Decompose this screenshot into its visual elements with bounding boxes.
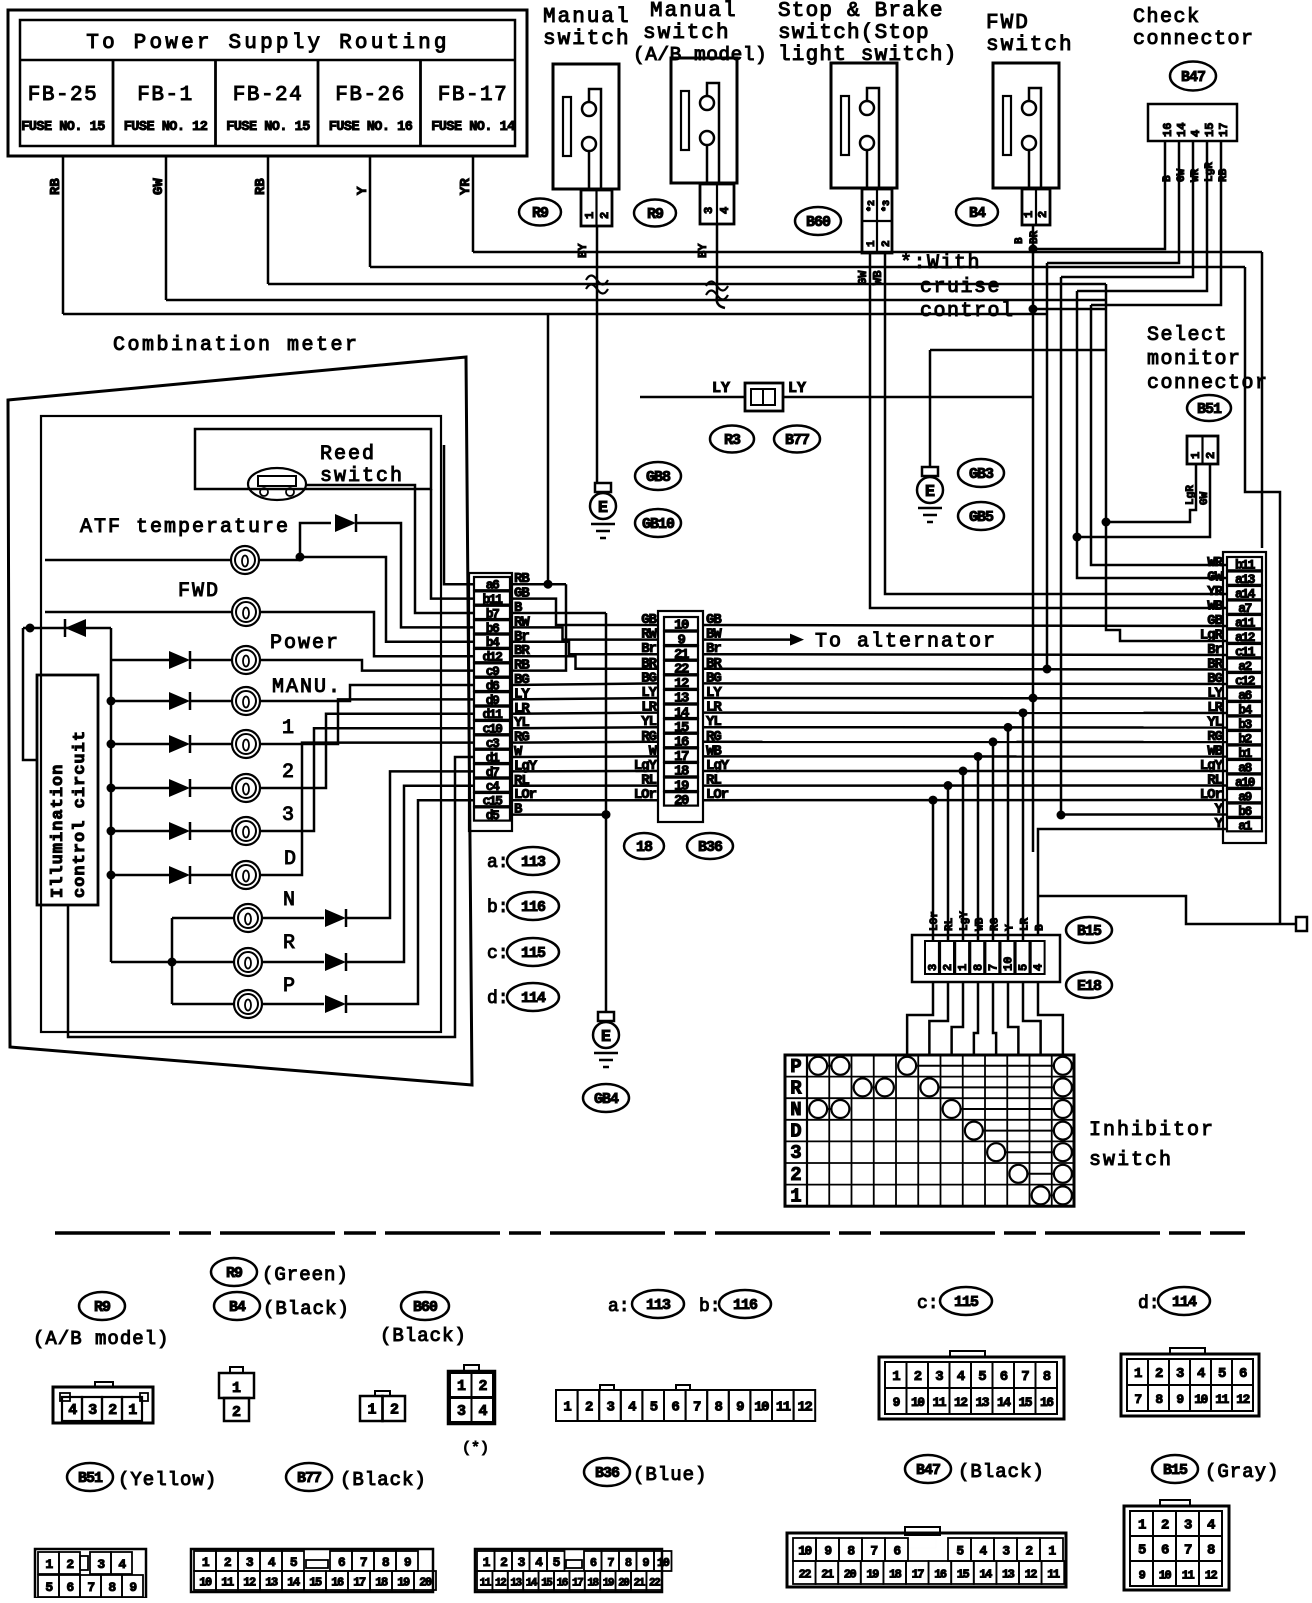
svg-text:(Gray): (Gray) [1205,1461,1279,1483]
svg-text:11: 11 [776,1400,791,1416]
svg-text:4: 4 [118,1557,126,1572]
svg-text:3: 3 [607,1400,615,1416]
svg-text:*2: *2 [866,200,878,212]
svg-text:N: N [790,1099,801,1121]
svg-text:7: 7 [986,964,1000,971]
svg-text:4: 4 [1189,130,1203,137]
svg-text:2: 2 [598,212,612,219]
svg-text:9: 9 [893,1395,901,1410]
svg-text:6: 6 [590,1556,597,1570]
svg-text:FWD: FWD [178,580,220,603]
svg-text:B60: B60 [413,1299,438,1316]
svg-text:9: 9 [824,1544,832,1559]
svg-text:D: D [284,848,298,871]
svg-text:9: 9 [1139,1569,1146,1583]
svg-text:19: 19 [866,1568,879,1582]
svg-text:B15: B15 [1077,923,1102,940]
svg-text:1: 1 [892,1369,900,1385]
svg-text:d:: d: [1138,1294,1160,1314]
svg-text:6: 6 [1161,1543,1169,1559]
svg-text:9: 9 [736,1400,744,1416]
svg-text:*3: *3 [881,200,893,212]
svg-text:16: 16 [557,1578,568,1590]
svg-text:5: 5 [956,1544,964,1559]
svg-text:R9: R9 [647,206,664,223]
svg-text:3: 3 [926,964,940,971]
svg-text:(Blue): (Blue) [633,1464,707,1486]
svg-text:21: 21 [634,1578,646,1590]
svg-text:Check: Check [1133,6,1201,29]
svg-text:light switch): light switch) [778,44,957,67]
svg-text:R: R [790,1077,802,1099]
svg-text:switch: switch [643,22,731,45]
svg-text:RL: RL [944,917,956,931]
svg-text:1: 1 [563,1400,571,1416]
svg-text:14: 14 [287,1576,300,1590]
svg-text:116: 116 [521,899,546,916]
svg-text:d:: d: [487,989,509,1009]
svg-text:E: E [601,1028,611,1047]
svg-text:Y: Y [355,186,371,195]
svg-text:2: 2 [232,1404,241,1421]
svg-text:3: 3 [88,1402,97,1419]
svg-text:Manual: Manual [650,0,738,23]
svg-text:B: B [1014,237,1026,244]
svg-text:7: 7 [1134,1392,1141,1407]
svg-text:1: 1 [232,1380,241,1397]
svg-text:FB-17: FB-17 [438,84,509,107]
svg-text:8: 8 [1207,1543,1215,1559]
svg-text:Manual: Manual [543,6,631,29]
svg-text:4: 4 [268,1555,276,1570]
svg-text:WB: WB [974,917,986,931]
svg-text:B51: B51 [1197,401,1222,418]
svg-text:13: 13 [975,1395,989,1410]
svg-text:6: 6 [671,1400,679,1416]
svg-text:11: 11 [480,1578,492,1590]
svg-text:1: 1 [1138,1518,1146,1534]
svg-text:Y: Y [1005,924,1017,931]
svg-text:B4: B4 [229,1299,246,1316]
svg-text:GB5: GB5 [969,509,994,526]
svg-text:10: 10 [754,1400,769,1416]
svg-text:Power: Power [270,632,340,655]
svg-text:7: 7 [870,1544,877,1559]
svg-text:13: 13 [1002,1568,1015,1582]
svg-text:B: B [1035,924,1047,931]
svg-text:6: 6 [338,1555,346,1570]
svg-text:14: 14 [997,1395,1011,1410]
svg-text:BR: BR [1029,230,1041,244]
svg-text:2: 2 [224,1555,232,1570]
svg-text:3: 3 [935,1369,943,1385]
svg-text:R9: R9 [226,1265,243,1282]
svg-text:Combination meter: Combination meter [113,334,360,357]
svg-text:1: 1 [866,240,878,247]
svg-text:3: 3 [282,804,296,827]
svg-text:switch: switch [986,34,1074,57]
svg-text:4: 4 [628,1400,636,1416]
svg-text:E: E [598,499,608,518]
svg-text:5: 5 [1138,1543,1146,1559]
svg-text:MANU.: MANU. [272,676,342,699]
svg-text:Select: Select [1147,324,1228,347]
svg-text:LY: LY [712,380,730,397]
svg-text:15: 15 [1018,1395,1032,1410]
svg-text:2: 2 [500,1555,508,1570]
svg-text:RG: RG [989,917,1001,931]
svg-text:15: 15 [309,1576,322,1590]
svg-text:B47: B47 [916,1462,940,1479]
svg-text:8: 8 [1043,1369,1051,1385]
svg-text:20: 20 [844,1568,857,1582]
svg-text:LOr: LOr [929,911,941,931]
svg-text:1: 1 [202,1555,210,1570]
svg-text:13: 13 [265,1576,278,1590]
svg-text:2: 2 [108,1402,117,1419]
svg-text:FB-24: FB-24 [233,84,304,107]
svg-text:116: 116 [733,1297,758,1314]
svg-text:Illumination: Illumination [49,764,68,898]
svg-text:1: 1 [1134,1366,1142,1382]
svg-text:FUSE NO. 12: FUSE NO. 12 [124,120,208,135]
svg-text:17: 17 [912,1568,925,1582]
svg-text:4: 4 [979,1544,987,1559]
svg-text:monitor: monitor [1147,348,1242,371]
svg-text:2: 2 [941,964,955,971]
svg-text:1: 1 [282,717,296,740]
svg-text:*:With: *:With [900,252,981,275]
svg-text:4: 4 [1032,964,1046,971]
svg-text:D: D [790,1121,801,1143]
svg-text:RB: RB [48,178,64,195]
svg-text:1: 1 [1189,452,1203,459]
svg-text:(Green): (Green) [262,1264,349,1286]
svg-text:1: 1 [483,1555,491,1570]
svg-text:3: 3 [1184,1518,1192,1534]
svg-text:16: 16 [1161,123,1175,137]
svg-text:11: 11 [1047,1568,1060,1582]
svg-text:4: 4 [1207,1518,1215,1534]
svg-text:YR: YR [458,178,474,195]
svg-text:To alternator: To alternator [815,631,997,654]
svg-text:113: 113 [646,1297,671,1314]
svg-text:RB: RB [253,178,269,195]
svg-text:15: 15 [957,1568,970,1582]
svg-text:5: 5 [45,1580,53,1595]
svg-text:8: 8 [108,1580,116,1595]
svg-text:113: 113 [521,854,546,871]
svg-text:B36: B36 [698,839,723,856]
svg-text:7: 7 [1184,1543,1192,1559]
svg-text:WB: WB [871,271,885,285]
svg-text:Stop & Brake: Stop & Brake [778,0,944,23]
svg-text:115: 115 [954,1294,979,1311]
svg-text:2: 2 [66,1557,74,1572]
svg-text:switch: switch [1089,1149,1173,1172]
svg-text:17: 17 [572,1578,583,1590]
svg-text:7: 7 [1021,1369,1029,1385]
svg-text:11: 11 [221,1576,234,1590]
svg-text:14: 14 [1175,123,1189,137]
svg-text:12: 12 [797,1400,812,1416]
svg-text:1: 1 [45,1557,53,1572]
svg-text:R9: R9 [532,205,549,222]
svg-text:4: 4 [535,1555,543,1570]
svg-text:GB8: GB8 [646,469,671,486]
svg-text:10: 10 [1002,957,1016,971]
svg-text:6: 6 [893,1544,901,1559]
svg-text:c:: c: [917,1294,939,1314]
svg-text:18: 18 [587,1578,599,1590]
svg-text:4: 4 [718,207,732,214]
svg-text:6: 6 [66,1580,74,1595]
svg-text:R9: R9 [94,1299,111,1316]
svg-text:(Black): (Black) [958,1461,1045,1483]
svg-text:(Black): (Black) [263,1298,350,1320]
svg-text:connector: connector [1147,372,1269,395]
svg-text:2: 2 [282,761,296,784]
svg-text:LY: LY [788,380,806,397]
svg-text:R3: R3 [724,432,741,449]
svg-text:9: 9 [404,1555,412,1570]
svg-text:115: 115 [521,945,546,962]
svg-text:R: R [283,932,297,955]
svg-text:12: 12 [1236,1392,1250,1407]
svg-text:4: 4 [1197,1366,1205,1382]
svg-text:9: 9 [129,1580,137,1595]
svg-text:7: 7 [360,1555,367,1570]
svg-text:17: 17 [353,1576,366,1590]
svg-text:B77: B77 [785,432,809,449]
svg-text:12: 12 [1205,1569,1218,1583]
svg-text:2: 2 [585,1400,593,1416]
svg-text:B51: B51 [78,1470,103,1487]
svg-text:B60: B60 [806,214,831,231]
svg-text:19: 19 [397,1576,410,1590]
svg-text:cruise: cruise [920,276,1001,299]
svg-text:2: 2 [1155,1366,1163,1382]
svg-text:13: 13 [510,1578,522,1590]
svg-text:9: 9 [1176,1392,1184,1407]
svg-text:11: 11 [932,1395,946,1410]
svg-text:(Yellow): (Yellow) [118,1469,217,1491]
svg-text:6: 6 [1000,1369,1008,1385]
svg-text:3: 3 [1002,1544,1010,1559]
svg-text:a:: a: [487,853,509,873]
svg-text:GW: GW [856,270,870,285]
svg-text:4: 4 [478,1403,487,1420]
svg-text:16: 16 [331,1576,344,1590]
svg-text:1: 1 [457,1378,466,1395]
svg-text:BY: BY [576,243,590,258]
svg-text:15: 15 [1203,123,1217,137]
svg-text:switch: switch [543,28,631,51]
svg-text:Inhibitor: Inhibitor [1089,1119,1215,1142]
svg-text:GB10: GB10 [642,516,675,533]
svg-text:10: 10 [1159,1569,1172,1583]
svg-text:B47: B47 [1181,69,1205,86]
svg-text:P: P [790,1056,801,1078]
svg-text:E: E [925,483,935,502]
svg-text:20: 20 [618,1578,629,1590]
svg-text:2: 2 [1036,211,1050,218]
svg-text:5: 5 [978,1369,986,1385]
svg-text:(A/B model): (A/B model) [33,1328,169,1350]
svg-text:18: 18 [889,1568,902,1582]
svg-text:LgY: LgY [959,911,971,931]
svg-text:4: 4 [957,1369,965,1385]
svg-text:17: 17 [1217,123,1231,137]
svg-text:P: P [283,975,297,998]
svg-text:1: 1 [790,1185,801,1207]
svg-text:control circuit: control circuit [71,730,90,898]
svg-text:FB-26: FB-26 [335,84,406,107]
svg-text:10: 10 [911,1395,925,1410]
svg-text:3: 3 [97,1557,105,1572]
svg-text:a:: a: [608,1297,630,1317]
svg-text:3: 3 [1176,1366,1184,1382]
svg-text:12: 12 [954,1395,968,1410]
svg-text:FUSE NO. 16: FUSE NO. 16 [329,120,413,135]
svg-text:3: 3 [518,1555,526,1570]
svg-text:21: 21 [821,1568,834,1582]
svg-text:FUSE NO. 15: FUSE NO. 15 [226,120,310,135]
svg-text:LR: LR [1020,917,1032,931]
svg-text:2: 2 [478,1378,487,1395]
svg-text:8: 8 [625,1556,632,1570]
svg-text:2: 2 [390,1402,399,1419]
svg-text:2: 2 [881,240,893,247]
svg-text:(*): (*) [462,1440,489,1457]
svg-text:1: 1 [1048,1544,1056,1559]
svg-text:2: 2 [790,1164,801,1186]
svg-text:8: 8 [382,1555,390,1570]
svg-text:10: 10 [798,1544,812,1559]
svg-text:10: 10 [199,1576,212,1590]
svg-text:14: 14 [979,1568,992,1582]
svg-text:7: 7 [693,1400,701,1416]
svg-text:(Black): (Black) [340,1469,427,1491]
svg-text:(A/B model): (A/B model) [633,44,767,66]
svg-text:B36: B36 [595,1465,620,1482]
svg-text:switch(Stop: switch(Stop [778,22,930,45]
svg-text:12: 12 [495,1578,506,1590]
svg-text:2: 2 [914,1369,922,1385]
svg-text:E18: E18 [1077,978,1102,995]
svg-text:4: 4 [68,1402,77,1419]
svg-text:16: 16 [1040,1395,1054,1410]
svg-text:GW: GW [151,178,167,195]
svg-text:22: 22 [649,1578,660,1590]
svg-text:1: 1 [367,1402,376,1419]
svg-text:10: 10 [1194,1392,1208,1407]
svg-text:ATF temperature: ATF temperature [80,516,290,539]
svg-text:8: 8 [971,964,985,971]
svg-text:5: 5 [1218,1366,1226,1382]
svg-text:19: 19 [603,1578,614,1590]
svg-text:2: 2 [1204,452,1218,459]
svg-text:11: 11 [1215,1392,1229,1407]
svg-text:5: 5 [553,1555,561,1570]
svg-text:3: 3 [457,1403,466,1420]
svg-text:20: 20 [674,793,689,809]
svg-text:10: 10 [657,1556,670,1570]
svg-text:11: 11 [1182,1569,1195,1583]
svg-text:FUSE NO. 15: FUSE NO. 15 [21,120,105,135]
svg-text:BY: BY [696,243,710,258]
svg-text:Reed: Reed [320,443,376,466]
svg-text:2: 2 [1025,1544,1033,1559]
svg-text:5: 5 [1017,964,1031,971]
svg-text:6: 6 [1239,1366,1247,1382]
svg-text:a1: a1 [1238,819,1252,834]
svg-text:12: 12 [243,1576,256,1590]
svg-text:3: 3 [790,1142,801,1164]
svg-text:1: 1 [128,1402,137,1419]
svg-text:16: 16 [934,1568,947,1582]
svg-text:114: 114 [521,990,546,1007]
svg-text:22: 22 [799,1568,812,1582]
svg-text:B15: B15 [1163,1462,1188,1479]
svg-text:connector: connector [1133,28,1255,51]
svg-text:N: N [283,889,297,912]
svg-text:1: 1 [583,212,597,219]
svg-text:20: 20 [419,1576,432,1590]
svg-text:12: 12 [1025,1568,1038,1582]
svg-text:FB-25: FB-25 [28,84,99,107]
svg-text:18: 18 [636,839,653,856]
svg-text:9: 9 [642,1556,649,1570]
svg-text:8: 8 [1155,1392,1163,1407]
svg-text:GB4: GB4 [594,1091,619,1108]
svg-text:8: 8 [715,1400,723,1416]
svg-text:B77: B77 [297,1470,321,1487]
svg-text:5: 5 [290,1555,298,1570]
svg-text:d5: d5 [486,808,500,823]
svg-text:8: 8 [847,1544,855,1559]
svg-text:14: 14 [526,1578,538,1590]
svg-text:7: 7 [607,1556,614,1570]
svg-text:To Power Supply Routing: To Power Supply Routing [86,32,449,55]
svg-text:18: 18 [375,1576,388,1590]
svg-text:b:: b: [487,898,509,918]
svg-text:FWD: FWD [986,12,1030,35]
svg-text:1: 1 [1022,211,1036,218]
svg-text:b:: b: [699,1297,721,1317]
svg-text:3: 3 [246,1555,254,1570]
svg-text:2: 2 [1161,1518,1169,1534]
svg-text:FB-1: FB-1 [137,84,193,107]
svg-text:FUSE NO. 14: FUSE NO. 14 [431,120,515,135]
svg-text:c:: c: [487,944,509,964]
svg-text:control: control [920,300,1015,323]
svg-text:(Black): (Black) [380,1325,467,1347]
svg-text:B4: B4 [969,205,986,222]
svg-text:1: 1 [956,964,970,971]
svg-text:5: 5 [650,1400,658,1416]
svg-text:15: 15 [541,1578,553,1590]
svg-text:7: 7 [87,1580,94,1595]
svg-text:114: 114 [1172,1294,1197,1311]
svg-text:3: 3 [702,207,716,214]
svg-text:GB3: GB3 [969,466,994,483]
